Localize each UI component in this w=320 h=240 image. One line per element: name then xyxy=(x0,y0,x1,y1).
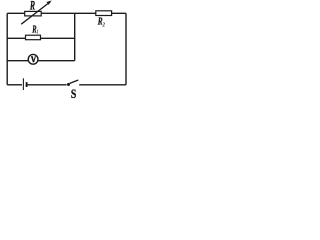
svg-text:2: 2 xyxy=(102,21,106,28)
svg-text:S: S xyxy=(71,86,76,99)
svg-text:R: R xyxy=(29,0,35,13)
svg-text:1: 1 xyxy=(37,30,39,36)
